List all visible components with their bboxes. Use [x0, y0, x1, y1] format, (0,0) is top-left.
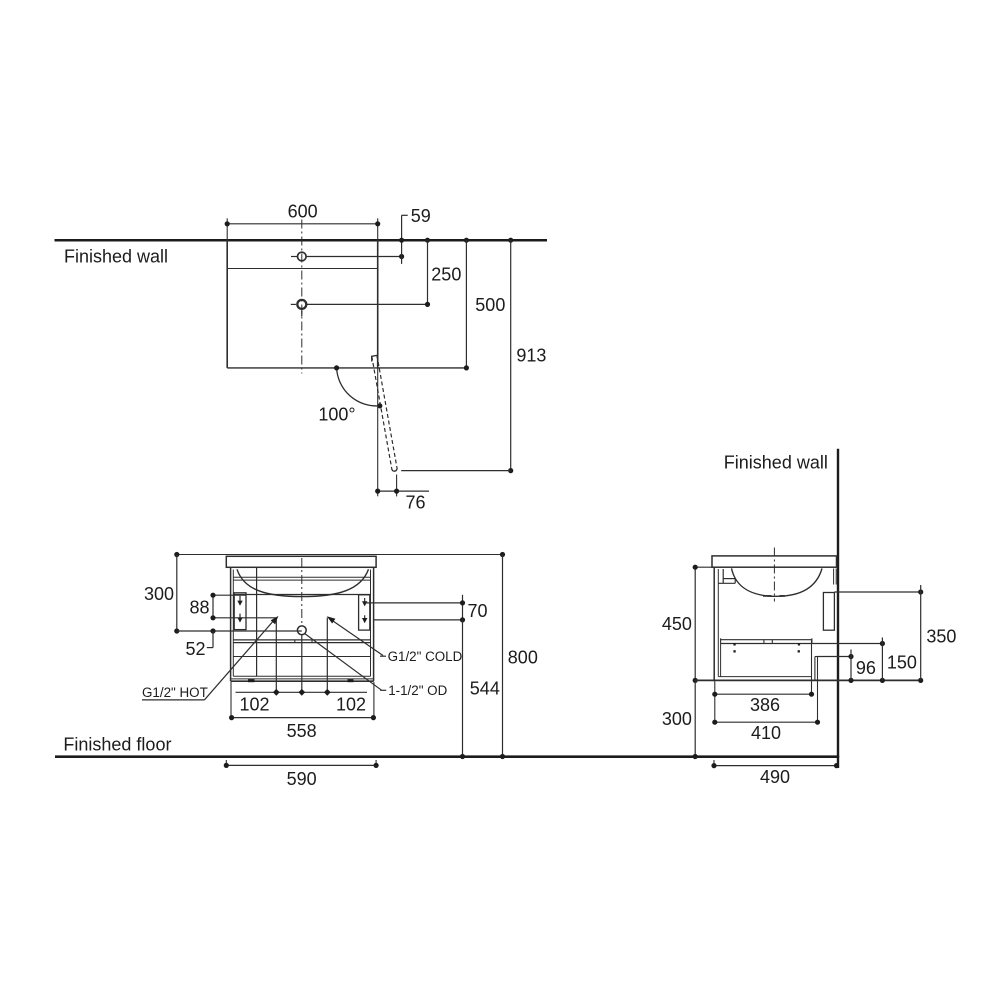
- svg-text:800: 800: [508, 648, 538, 668]
- svg-text:100°: 100°: [318, 405, 355, 425]
- svg-text:G1/2" COLD: G1/2" COLD: [388, 649, 463, 664]
- svg-text:Finished wall: Finished wall: [724, 452, 828, 472]
- svg-text:76: 76: [406, 493, 426, 513]
- svg-text:52: 52: [186, 639, 206, 659]
- svg-text:350: 350: [926, 627, 956, 647]
- svg-text:490: 490: [760, 767, 790, 787]
- svg-text:59: 59: [411, 206, 431, 226]
- svg-text:1-1/2" OD: 1-1/2" OD: [388, 683, 447, 698]
- svg-text:Finished wall: Finished wall: [64, 246, 168, 266]
- svg-text:600: 600: [288, 201, 318, 221]
- svg-text:Finished floor: Finished floor: [63, 734, 171, 754]
- svg-text:70: 70: [468, 601, 488, 621]
- svg-text:500: 500: [475, 295, 505, 315]
- svg-text:88: 88: [190, 598, 210, 618]
- svg-text:410: 410: [751, 723, 781, 743]
- svg-text:102: 102: [239, 694, 269, 714]
- svg-text:450: 450: [662, 614, 692, 634]
- svg-text:913: 913: [516, 345, 546, 365]
- svg-text:386: 386: [750, 695, 780, 715]
- svg-text:G1/2" HOT: G1/2" HOT: [142, 685, 208, 700]
- svg-text:544: 544: [470, 678, 500, 698]
- svg-text:250: 250: [431, 264, 461, 284]
- svg-text:150: 150: [887, 653, 917, 673]
- svg-text:300: 300: [662, 709, 692, 729]
- svg-text:590: 590: [287, 769, 317, 789]
- svg-text:558: 558: [287, 721, 317, 741]
- svg-text:102: 102: [336, 694, 366, 714]
- svg-text:300: 300: [144, 584, 174, 604]
- svg-text:96: 96: [856, 658, 876, 678]
